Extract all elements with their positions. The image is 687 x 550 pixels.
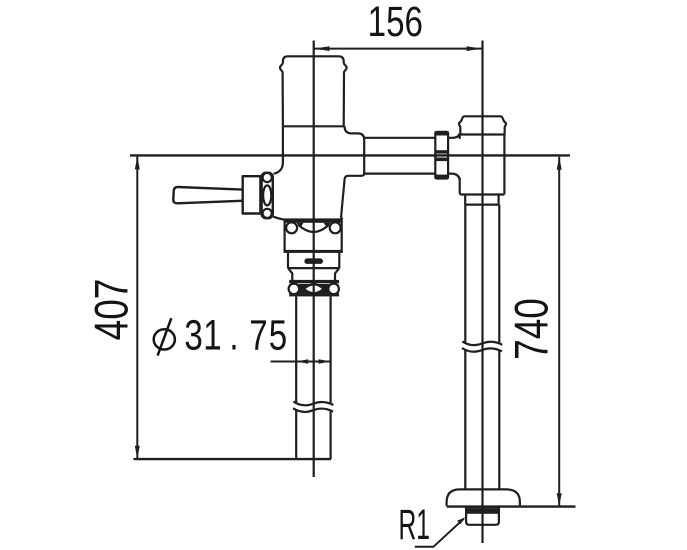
vb slot [304, 258, 323, 264]
bottom flange dome [447, 489, 520, 506]
outlet coupling nut [435, 131, 449, 179]
leader line R1 [415, 519, 464, 547]
svg-text:5: 5 [269, 313, 287, 360]
vb top bar [284, 218, 342, 222]
arrow 740 top [557, 157, 562, 170]
arrow 156 left [314, 46, 330, 51]
vb top nut left ball [286, 222, 297, 233]
nut band bottom [435, 175, 449, 179]
vacuum breaker bottom nut [289, 280, 340, 297]
vb bottom nut left ball [289, 284, 300, 295]
arrow 156 right [467, 46, 483, 51]
dimension line 156 [314, 48, 482, 50]
dimension line phi31.75 [271, 361, 331, 363]
right pipe break wave lower [462, 348, 502, 352]
arrow 740 bottom [557, 493, 562, 506]
valve body upper cap and chamber [280, 56, 347, 126]
outlet pipe bottom edge left of nut [364, 173, 435, 175]
dimension line 407 [136, 156, 138, 458]
dim symbol phi slash [158, 318, 172, 355]
vb bottom nut dark body [290, 284, 339, 293]
vb bottom nut top bar [289, 280, 339, 283]
elbow left edge lower and shoulder [460, 178, 505, 195]
vb box sides [285, 220, 342, 253]
vb taper left [288, 268, 292, 280]
left pipe break wave lower [293, 408, 333, 412]
vb crown arc [298, 225, 329, 232]
left supply pipe upper segment [296, 296, 330, 403]
vacuum breaker mid section [288, 253, 339, 280]
arrow 407 top [135, 156, 140, 169]
nut band top [435, 131, 449, 135]
vb taper right [335, 268, 339, 280]
nut band mid upper [435, 150, 448, 153]
right vertical pipe upper segment [465, 205, 499, 344]
right pipe break wave upper [462, 341, 502, 345]
vb bottom nut right ball [328, 284, 339, 295]
elbow collar [465, 195, 498, 205]
spud gasket band [466, 509, 499, 514]
elbow cap bottom line [458, 133, 505, 135]
lever boss column [262, 173, 273, 219]
svg-text:7: 7 [249, 313, 267, 360]
valve body right step and outlet face [341, 126, 364, 219]
boss bottom ball [263, 209, 272, 218]
vb top nut left wedge [297, 223, 304, 228]
svg-text:1: 1 [203, 313, 221, 360]
svg-text:156: 156 [368, 0, 423, 46]
nut band mid lower [435, 158, 448, 162]
elbow left edge upper tick [459, 135, 461, 139]
outlet pipe bottom edge right of nut with fillet [448, 174, 459, 179]
left pipe break wave upper [293, 402, 333, 406]
bottom extension line left [134, 458, 332, 460]
spud outline [466, 508, 499, 525]
arrow phi right [319, 359, 331, 364]
supply level horizontal line [130, 154, 570, 156]
boss top ball [263, 173, 272, 182]
elbow top cap [447, 116, 520, 525]
svg-text:R1: R1 [399, 502, 431, 548]
vb top nut right ball [330, 222, 341, 233]
centerline right pipe vertical [481, 41, 483, 544]
vacuum breaker top nut [284, 218, 343, 253]
vb top nut right wedge [324, 223, 331, 228]
vb bottom nut bottom bar [289, 293, 339, 296]
arrow phi left [296, 359, 308, 364]
outlet pipe top edge left of nut [364, 137, 435, 139]
lever handle grip [173, 187, 241, 203]
right vertical pipe lower segment [465, 350, 499, 489]
lever socket block [243, 176, 261, 213]
boss middle ellipse [263, 185, 271, 205]
vb bottom nut lens [304, 284, 324, 293]
arrow R1 leader [457, 517, 465, 524]
valve cap bottom line [283, 125, 345, 127]
svg-text:3: 3 [184, 313, 202, 360]
valve body lower left edge into lever boss [274, 126, 283, 173]
elbow right edge [503, 135, 505, 195]
svg-text:.: . [229, 313, 238, 360]
dim symbol phi ellipse [154, 329, 175, 349]
svg-text:407: 407 [85, 279, 139, 341]
left supply pipe lower segment [296, 411, 330, 460]
vb box bottom band [284, 250, 343, 253]
flange bottom and extension line [447, 505, 576, 507]
arrow 407 bottom [135, 446, 140, 459]
svg-text:740: 740 [505, 298, 559, 360]
centerline valve vertical [313, 41, 315, 478]
outlet pipe top edge right of nut with fillet [448, 134, 459, 138]
valve body edge from boss bottom to vacuum breaker [273, 217, 285, 220]
dimension line 740 [558, 157, 560, 506]
